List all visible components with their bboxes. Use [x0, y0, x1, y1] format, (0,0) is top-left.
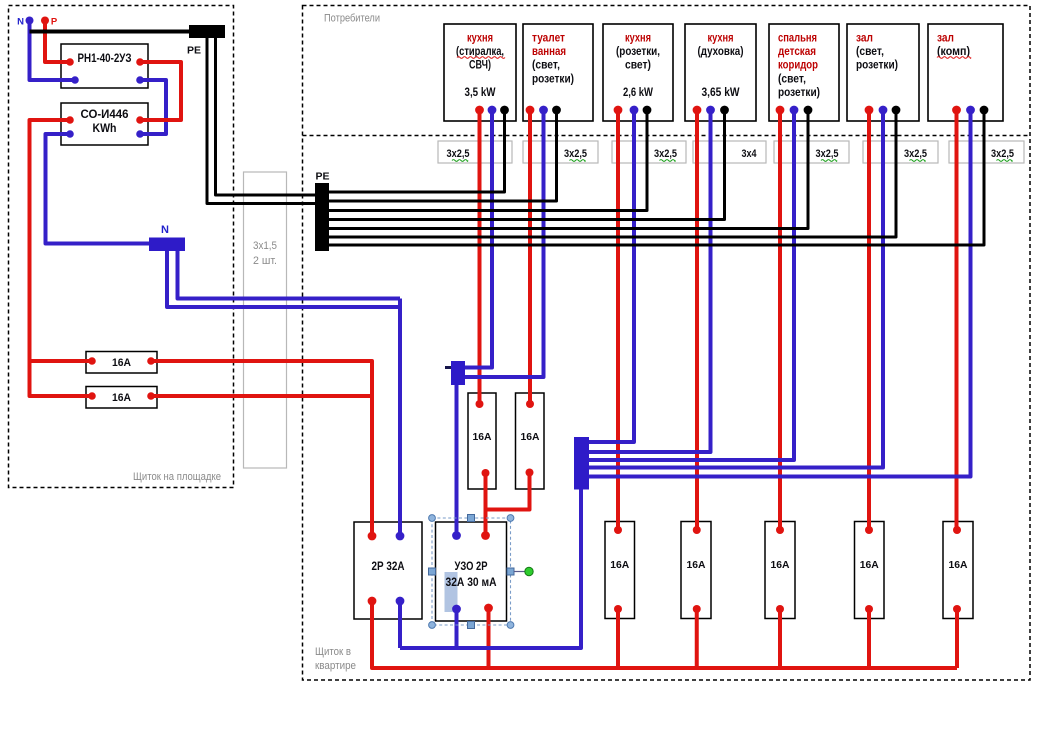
wire N 2P32A output down: [398, 601, 402, 648]
selection handle mid right: [507, 568, 514, 575]
box5 terminal L: [776, 106, 785, 115]
svg-text:2 шт.: 2 шт.: [253, 255, 277, 267]
selection handle corner TL: [429, 515, 436, 522]
breaker A terminal out: [482, 469, 490, 477]
node P terminal: [41, 17, 49, 25]
apartment panel border (Щиток в квартире): [303, 6, 1031, 681]
svg-text:KWh: KWh: [93, 121, 117, 135]
wire L landing breaker #2 joining: [151, 394, 372, 398]
svg-text:16А: 16А: [771, 559, 790, 571]
svg-text:3х1,5: 3х1,5: [253, 240, 277, 252]
box3 terminal L: [614, 106, 623, 115]
voltage relay РН1-40-2УЗ: [61, 44, 148, 88]
svg-text:(комп): (комп): [937, 46, 970, 58]
selection handle mid left: [429, 568, 436, 575]
wire L box2 to 16A-B: [528, 110, 532, 404]
svg-text:16А: 16А: [112, 357, 131, 369]
selection rotate handle green: [525, 567, 533, 575]
wire N box4 to N busbar-2: [589, 110, 711, 452]
wire L landing breaker #1 to 2P32A: [151, 361, 372, 536]
svg-text:УЗО 2Р: УЗО 2Р: [455, 561, 488, 573]
wire N box2 to N busbar-1: [465, 110, 544, 377]
wire N supply to РН1 input: [30, 21, 76, 81]
circuit breaker 16A landing #1: [86, 352, 157, 374]
meter terminal L: [66, 116, 74, 124]
cable label 3х2,5 #1: [438, 141, 512, 163]
RCD УЗО 2Р 32А 30 мА: [436, 522, 507, 621]
wire PE bus to box3: [329, 110, 647, 211]
wire N РН1 out to meter: [140, 80, 166, 134]
svg-text:16А: 16А: [860, 559, 879, 571]
2P32A terminal L out: [368, 597, 377, 606]
wire PE landing to apartment upper: [216, 38, 317, 195]
svg-text:зал: зал: [856, 33, 873, 45]
consumer box box5: спальня детская коридор (свет, розетки): [769, 24, 839, 121]
main breaker 2Р 32А: [354, 522, 422, 619]
wire L breaker A to УЗО: [484, 473, 488, 536]
wire L box7 to breaker: [955, 110, 959, 530]
landing breaker terminal: [88, 357, 96, 365]
svg-text:3х4: 3х4: [742, 148, 758, 160]
svg-text:детская: детская: [778, 46, 816, 58]
box4 terminal PE: [720, 106, 729, 115]
circuit breaker 16A circuit 5: [765, 522, 795, 619]
svg-text:кухня: кухня: [708, 33, 734, 45]
svg-text:спальня: спальня: [778, 33, 817, 45]
cable label 3х2,5 #7: [949, 141, 1024, 163]
box3 terminal N: [630, 106, 639, 115]
УЗО selection frame: [432, 518, 511, 625]
breaker c6 terminal out: [865, 605, 873, 613]
svg-text:16А: 16А: [610, 559, 629, 571]
svg-text:РН1-40-2УЗ: РН1-40-2УЗ: [78, 51, 132, 65]
wire L box3 to breaker: [616, 110, 620, 530]
box4 terminal N: [706, 106, 715, 115]
box6 terminal PE: [892, 106, 901, 115]
node N terminal: [26, 17, 34, 25]
УЗО terminal N bottom: [452, 605, 461, 614]
landing breaker terminal: [88, 392, 96, 400]
wire N down to 2P32A input: [398, 299, 402, 537]
wire L УЗО bottom to L feed line: [487, 608, 491, 668]
box6 terminal N: [879, 106, 888, 115]
svg-text:2,6 kW: 2,6 kW: [623, 87, 653, 99]
selection handle corner BL: [429, 622, 436, 629]
wire N box7 to N busbar-2: [589, 110, 971, 477]
wire N box6 to N busbar-2: [589, 110, 883, 468]
svg-text:зал: зал: [937, 33, 954, 45]
УЗО terminal N top: [452, 531, 461, 540]
spellcheck squiggle under (стиралка,: [457, 57, 505, 59]
svg-text:PE: PE: [315, 171, 329, 183]
breaker c6 terminal in: [865, 526, 873, 534]
svg-text:СО-И446: СО-И446: [81, 107, 129, 121]
УЗО highlight bar: [445, 572, 458, 612]
svg-text:розетки): розетки): [856, 60, 898, 72]
svg-text:P: P: [51, 17, 58, 28]
wire N УЗО output down: [455, 609, 459, 648]
wire L breaker c7 to feed line: [955, 609, 959, 668]
breaker c4 terminal out: [693, 605, 701, 613]
svg-text:(свет,: (свет,: [778, 73, 806, 85]
wire L breaker c3 to feed line: [616, 609, 620, 668]
РН1 terminal N: [71, 76, 79, 84]
svg-text:3х2,5: 3х2,5: [816, 148, 839, 160]
wire P supply to РН1 input: [45, 21, 70, 63]
breaker c7 terminal out: [953, 605, 961, 613]
wire PE supply to landing PE bus: [30, 30, 190, 34]
circuit breaker 16A (УЗО group A): [468, 393, 496, 489]
svg-text:(свет,: (свет,: [532, 60, 560, 72]
cable conduit 3x1,5 2 шт.: [244, 172, 287, 468]
wire L box6 to breaker: [867, 110, 871, 530]
svg-text:3,5 kW: 3,5 kW: [465, 87, 496, 99]
wire L breaker B joining: [486, 473, 530, 510]
consumer box box2: туалет ванная (свет, розетки): [523, 24, 593, 121]
meter terminal N: [136, 130, 144, 138]
РН1 terminal L: [66, 58, 74, 66]
landing panel border (Щиток на площадке): [9, 6, 234, 488]
svg-text:16А: 16А: [112, 392, 131, 404]
N busbar-1 (УЗО group): [451, 361, 465, 385]
breaker c5 terminal in: [776, 526, 784, 534]
svg-text:туалет: туалет: [532, 33, 565, 45]
cable label 3х2,5 #6: [863, 141, 938, 163]
svg-text:N: N: [161, 224, 169, 236]
wire PE bus to box4: [329, 110, 725, 220]
busbar-1 stub: [445, 366, 451, 369]
meter terminal L: [136, 116, 144, 124]
box2 terminal L: [526, 106, 535, 115]
breaker B terminal out: [526, 469, 534, 477]
svg-text:розетки): розетки): [532, 73, 574, 85]
circuit breaker 16A circuit 7: [943, 522, 973, 619]
spellcheck squiggle under (комп): [937, 57, 971, 59]
svg-text:3х2,5: 3х2,5: [991, 148, 1014, 160]
wire PE bus to box6: [329, 110, 896, 237]
wire L box1 to 16A-A: [478, 110, 482, 404]
box2 terminal PE: [552, 106, 561, 115]
N busbar-2 (apartment circuits): [574, 437, 589, 490]
box4 terminal L: [693, 106, 702, 115]
wire PE bus to box5: [329, 110, 808, 229]
svg-text:кухня: кухня: [625, 33, 651, 45]
svg-text:3х2,5: 3х2,5: [654, 148, 677, 160]
svg-text:Щиток в: Щиток в: [315, 646, 351, 658]
breaker c7 terminal in: [953, 526, 961, 534]
svg-text:N: N: [17, 17, 24, 28]
selection rotate connector: [514, 571, 525, 573]
РН1 terminal N: [136, 76, 144, 84]
svg-text:СВЧ): СВЧ): [469, 60, 491, 72]
wire N box5 to N busbar-2: [589, 110, 794, 460]
box6 terminal L: [865, 106, 874, 115]
PE busbar (landing): [189, 25, 225, 38]
wire L box5 to breaker: [778, 110, 782, 530]
PE busbar (apartment): [315, 183, 329, 251]
box3 terminal PE: [643, 106, 652, 115]
wire N box1 to N busbar-1: [465, 110, 492, 368]
N busbar (landing): [149, 238, 185, 252]
cable label 3х2,5 #5: [774, 141, 849, 163]
svg-text:16А: 16А: [473, 431, 492, 443]
consumer box box3: кухня (розетки, свет) 2,6 kW: [603, 24, 673, 121]
svg-text:3,65 kW: 3,65 kW: [702, 87, 740, 99]
wire L feed line to circuit breakers: [372, 601, 957, 668]
landing breaker terminal: [147, 392, 155, 400]
svg-text:16А: 16А: [687, 559, 706, 571]
svg-text:коридор: коридор: [778, 60, 818, 72]
energy meter СО-И446 KWh: [61, 103, 148, 145]
svg-text:квартире: квартире: [315, 660, 356, 672]
cable label 3х2,5 #3: [612, 141, 686, 163]
circuit breaker 16A (УЗО group B): [516, 393, 545, 489]
consumers strip divider dashed line: [303, 135, 1031, 137]
УЗО terminal L bottom: [484, 604, 493, 613]
svg-text:(розетки,: (розетки,: [616, 46, 660, 58]
consumer box box4: кухня (духовка) 3,65 kW: [685, 24, 756, 121]
wire N busbar-2 down to N feed line: [400, 490, 581, 649]
УЗО terminal L top: [481, 531, 490, 540]
svg-text:кухня: кухня: [467, 33, 493, 45]
circuit breaker 16A circuit 4: [681, 522, 711, 619]
svg-text:3х2,5: 3х2,5: [564, 148, 587, 160]
circuit breaker 16A circuit 3: [605, 522, 635, 619]
circuit breaker 16A landing #2: [86, 387, 157, 409]
wire PE bus to box2: [329, 110, 557, 201]
svg-text:(свет,: (свет,: [856, 46, 884, 58]
svg-text:свет): свет): [625, 60, 651, 72]
wire N busbar to apartment lower: [167, 251, 400, 307]
wire L breaker c4 to feed line: [695, 609, 699, 668]
svg-text:16А: 16А: [521, 431, 540, 443]
box1 terminal N: [488, 106, 497, 115]
breaker c3 terminal out: [614, 605, 622, 613]
svg-text:PE: PE: [187, 45, 201, 57]
box2 terminal N: [539, 106, 548, 115]
cable label 3х2,5 #2: [523, 141, 598, 163]
wire PE bus to box1: [329, 110, 505, 192]
svg-text:2Р 32А: 2Р 32А: [372, 561, 405, 573]
meter terminal N: [66, 130, 74, 138]
svg-text:32А 30 мА: 32А 30 мА: [446, 577, 497, 589]
selection handle mid top: [468, 515, 475, 522]
wire L РН1 out to meter: [140, 62, 181, 120]
circuit breaker 16A circuit 6: [855, 522, 885, 619]
cable label 3х4 #4: [693, 141, 766, 163]
wire L box4 to breaker: [695, 110, 699, 530]
wire L breaker c6 to feed line: [867, 609, 871, 668]
svg-text:3х2,5: 3х2,5: [447, 148, 470, 160]
box1 terminal L: [475, 106, 484, 115]
svg-text:ванная: ванная: [532, 46, 566, 58]
consumer box box1: кухня (стиралка, СВЧ) 3,5 kW: [444, 24, 516, 121]
wire N box3 to N busbar-2: [589, 110, 634, 442]
consumer box box6: зал (свет, розетки): [847, 24, 919, 121]
selection handle corner BR: [507, 622, 514, 629]
svg-text:16А: 16А: [949, 559, 968, 571]
selection handle corner TR: [507, 515, 514, 522]
box7 terminal N: [966, 106, 975, 115]
РН1 terminal L: [136, 58, 144, 66]
2P32A terminal L in: [368, 532, 377, 541]
2P32A terminal N in: [396, 532, 405, 541]
selection handle mid bottom: [468, 622, 475, 629]
box7 terminal L: [952, 106, 961, 115]
breaker c5 terminal out: [776, 605, 784, 613]
wire PE bus to box7: [329, 110, 984, 245]
breaker c3 terminal in: [614, 526, 622, 534]
wire L meter out to landing breakers: [30, 120, 93, 396]
box7 terminal PE: [980, 106, 989, 115]
box1 terminal PE: [500, 106, 509, 115]
consumer box box7: зал (комп): [928, 24, 1003, 121]
wire N meter out to N busbar: [46, 134, 150, 244]
wire L breaker c5 to feed line: [778, 609, 782, 668]
box5 terminal N: [790, 106, 799, 115]
landing breaker terminal: [147, 357, 155, 365]
wire L branch to landing breaker #1: [30, 359, 93, 363]
wire N busbar-1 to УЗО input: [455, 385, 459, 536]
svg-text:Щиток на площадке: Щиток на площадке: [133, 471, 221, 483]
svg-text:(стиралка,: (стиралка,: [456, 46, 504, 58]
2P32A terminal N out: [396, 597, 405, 606]
svg-text:3х2,5: 3х2,5: [904, 148, 927, 160]
svg-text:(духовка): (духовка): [698, 46, 744, 58]
breaker B terminal in: [526, 400, 534, 408]
box5 terminal PE: [804, 106, 813, 115]
svg-text:розетки): розетки): [778, 87, 820, 99]
svg-text:Потребители: Потребители: [324, 13, 380, 25]
breaker A terminal in: [476, 400, 484, 408]
wire N busbar to apartment upper: [178, 251, 401, 299]
breaker c4 terminal in: [693, 526, 701, 534]
wire PE landing to apartment lower: [207, 38, 316, 204]
